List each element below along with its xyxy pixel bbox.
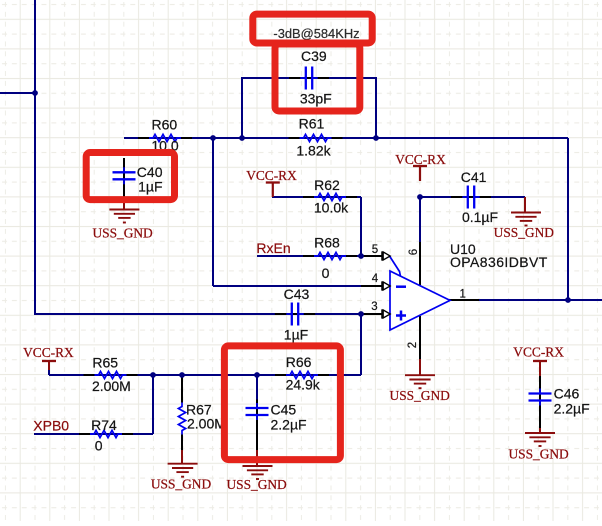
capacitor C43 (283, 286, 310, 343)
svg-text:R68: R68 (314, 235, 340, 251)
svg-text:5: 5 (372, 244, 378, 256)
svg-text:1µF: 1µF (284, 327, 308, 343)
svg-text:1.82k: 1.82k (296, 143, 331, 159)
pins of capacitor C39 (289, 77, 329, 79)
svg-text:R61: R61 (299, 116, 325, 132)
svg-text:2.00M: 2.00M (92, 378, 131, 394)
svg-text:XPB0: XPB0 (33, 418, 69, 434)
pin 5 lead (361, 255, 382, 257)
svg-text:VCC-RX: VCC-RX (246, 168, 297, 183)
node C45 tap (254, 372, 260, 378)
wire RxEn / pin5 (257, 255, 361, 257)
svg-text:USS_GND: USS_GND (494, 225, 555, 240)
wire to C43 / pin 3 (34, 313, 361, 315)
svg-text:R66: R66 (286, 354, 312, 370)
pin 1 lead (448, 299, 479, 301)
node C39 right (373, 135, 379, 141)
svg-text:OPA836IDBVT: OPA836IDBVT (450, 254, 548, 270)
pins of capacitor C41 (451, 196, 491, 198)
pins of resistor R61 (289, 137, 343, 139)
ground C45 USS_GND (226, 450, 287, 492)
wire feedback top (R60/R61 line) (124, 137, 568, 139)
svg-text:R60: R60 (151, 117, 177, 133)
svg-text:C45: C45 (271, 401, 297, 417)
ground C40 USS_GND (92, 197, 153, 241)
pins of capacitor C46 (539, 376, 541, 429)
wire pin3 riser from R66 (360, 313, 362, 375)
node pin3/C43/R66 (358, 311, 364, 317)
capacitor C40 (113, 164, 163, 195)
node R67 tap (179, 372, 185, 378)
capacitor C46 (529, 385, 590, 417)
svg-text:4: 4 (372, 273, 379, 285)
svg-text:VCC-RX: VCC-RX (23, 345, 74, 360)
node pin5/R68/R62 (358, 253, 364, 259)
svg-text:6: 6 (408, 249, 420, 255)
svg-text:2: 2 (407, 342, 419, 348)
annotation red box 3 (C40) (86, 153, 174, 200)
ground C41 USS_GND (494, 197, 555, 240)
capacitor C41 (459, 169, 498, 225)
capacitor C39 (297, 48, 332, 107)
wire bottom node (R65/R66 line) (49, 374, 361, 376)
svg-text:0.1µF: 0.1µF (462, 209, 498, 225)
wire pin4 horizontal (213, 285, 361, 287)
node input junction (32, 90, 38, 96)
svg-text:C46: C46 (554, 386, 580, 402)
power VCC-RX (R65) (23, 345, 74, 370)
pin 6 lead (419, 242, 421, 285)
ground C46 USS_GND (508, 428, 569, 461)
svg-text:1µF: 1µF (138, 178, 162, 194)
svg-text:USS_GND: USS_GND (390, 388, 451, 403)
pins of capacitor C40 (123, 158, 125, 197)
node feedback/pin4 (210, 135, 216, 141)
svg-text:VCC-RX: VCC-RX (395, 152, 446, 167)
pins of resistor R60 (138, 137, 192, 139)
wire R74 riser (152, 375, 154, 434)
annotation red box 2 (C39) (275, 44, 360, 111)
resistor R62 (314, 177, 349, 216)
wire feedback right riser (567, 138, 569, 300)
pins of resistor R65 (84, 374, 138, 376)
svg-text:USS_GND: USS_GND (226, 477, 287, 492)
wire XPB0 / R74 (34, 433, 153, 435)
resistor R66 (286, 354, 321, 393)
wire R62 riser to pin5 (360, 197, 362, 256)
svg-text:2.2µF: 2.2µF (271, 416, 307, 432)
svg-text:VCC-RX: VCC-RX (513, 345, 564, 360)
pins of resistor R74 (79, 433, 133, 435)
ground U10 pin2 USS_GND (390, 359, 451, 403)
resistor R74 (90, 417, 122, 454)
resistor R61 (296, 116, 331, 159)
wire input horizontal (0, 92, 35, 94)
svg-text:USS_GND: USS_GND (92, 226, 153, 241)
wire C39 left riser (241, 78, 243, 138)
ground R67 USS_GND (151, 450, 212, 492)
svg-text:10.0k: 10.0k (314, 200, 349, 216)
resistor R67 (178, 402, 226, 435)
pin 4 lead (361, 285, 382, 287)
resistor R65 (92, 354, 131, 394)
pins of capacitor C45 (256, 401, 258, 450)
pin 3 (371, 301, 390, 319)
node output/feedback (565, 297, 571, 303)
wire C39 top (241, 77, 377, 79)
node C39 left (239, 135, 245, 141)
pins of resistor R62 (303, 196, 357, 198)
wire C39 right riser (375, 78, 377, 138)
wire C41 line (420, 196, 525, 198)
pins of resistor R66 (275, 374, 329, 376)
svg-text:24.9k: 24.9k (286, 376, 321, 392)
node VCC/C41/pin6 (417, 194, 423, 200)
pin 3 lead (361, 313, 382, 315)
svg-text:0: 0 (95, 438, 103, 454)
node R65/R74 (150, 372, 156, 378)
wire output (478, 299, 602, 301)
svg-text:1: 1 (459, 289, 465, 301)
svg-text:33pF: 33pF (300, 91, 332, 107)
capacitor C45 (246, 400, 307, 433)
annotation red box 1 (-3dB label) (253, 14, 372, 43)
wire VCC-RX stem to R65 (48, 369, 50, 375)
pins of resistor R68 (303, 255, 357, 257)
svg-text:-3dB@584KHz: -3dB@584KHz (273, 26, 359, 41)
svg-text:R74: R74 (91, 417, 117, 433)
resistor R60 (149, 117, 181, 154)
svg-text:USS_GND: USS_GND (151, 477, 212, 492)
pins of resistor R67 (181, 375, 183, 450)
pin 2 lead (419, 316, 421, 359)
pin 4 (372, 273, 390, 291)
svg-text:RxEn: RxEn (256, 240, 290, 256)
svg-text:0: 0 (322, 265, 330, 281)
svg-text:USS_GND: USS_GND (508, 446, 569, 461)
op-amp U10 (390, 241, 548, 330)
svg-text:C39: C39 (301, 48, 327, 64)
wire input vertical (34, 0, 36, 315)
svg-text:C41: C41 (461, 169, 487, 185)
wire R62 line (272, 196, 361, 198)
pin 5 (372, 244, 390, 261)
power VCC-RX (C41) (395, 152, 446, 181)
wire pin4 riser (212, 137, 214, 286)
svg-text:R65: R65 (92, 354, 118, 370)
svg-text:2.00M: 2.00M (187, 415, 226, 431)
power VCC-RX (C46) (513, 345, 564, 377)
resistor R68 (314, 235, 346, 281)
power VCC-RX (R62) (246, 168, 297, 197)
svg-text:3: 3 (371, 301, 377, 313)
svg-text:2.2µF: 2.2µF (554, 401, 590, 417)
annotation red box 4 (R66/C45) (224, 346, 340, 460)
svg-text:C43: C43 (284, 286, 310, 302)
svg-text:R62: R62 (314, 177, 340, 193)
pins of capacitor C43 (275, 313, 315, 315)
wire pin6 vertical (419, 197, 421, 242)
wire C45 drop (256, 375, 258, 401)
